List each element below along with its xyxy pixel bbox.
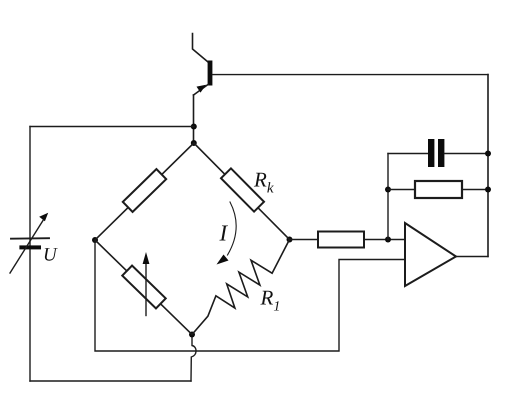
- wire input resistor to inverting input: [364, 239, 405, 241]
- svg-text:R1: R1: [260, 286, 281, 315]
- node capacitor-rail junction: [485, 151, 491, 157]
- svg-text:Rk: Rk: [253, 168, 274, 197]
- wire bridge-right node to input resistor: [290, 239, 319, 241]
- resistor bridge bottom-left arm (adjustable): [95, 240, 192, 335]
- node bridge bottom: [189, 332, 195, 338]
- wire feedback resistor left: [388, 189, 415, 191]
- wire top-left horizontal: [30, 126, 194, 128]
- wire op-amp output: [456, 256, 488, 258]
- wire bridge-left node to op-amp non-inverting input: [95, 240, 405, 351]
- resistor (feedback): [415, 181, 462, 198]
- node emitter / top-left wire junction: [191, 124, 197, 130]
- op-amp U1: [405, 223, 456, 286]
- wire emitter down to bridge top: [193, 95, 195, 143]
- node bridge right: [287, 237, 293, 243]
- svg-text:U: U: [43, 245, 58, 266]
- wire right rail: [487, 75, 489, 257]
- node bridge left: [92, 237, 98, 243]
- wire capacitor branch left: [388, 153, 428, 155]
- wire feedback vertical: [387, 154, 389, 240]
- resistor Rk (bridge top-right arm): [194, 143, 290, 240]
- wire collector stub: [193, 34, 209, 63]
- resistor bridge top-left arm: [95, 143, 194, 240]
- node bridge top: [191, 140, 197, 146]
- wire riser to bridge bottom (hops over crossing wire): [191, 335, 196, 382]
- node inverting input: [385, 237, 391, 243]
- wire base (transistor to right rail): [212, 74, 488, 76]
- resistor (op-amp input): [318, 232, 364, 248]
- transistor Q1: [194, 61, 213, 96]
- wire bottom horizontal: [30, 380, 191, 382]
- wire left rail upper: [29, 127, 31, 246]
- svg-text:I: I: [219, 221, 229, 246]
- wire feedback resistor right: [462, 189, 488, 191]
- capacitor C1: [428, 139, 444, 167]
- current arrow I: [217, 202, 237, 265]
- resistor R1 (bridge bottom-right arm, zigzag): [192, 240, 290, 335]
- source U (adjustable voltage source): [10, 213, 49, 273]
- wire left rail lower: [29, 249, 31, 381]
- wire capacitor branch right: [444, 153, 488, 155]
- node feedback branch: [385, 187, 391, 193]
- node feedback resistor-rail junction: [485, 187, 491, 193]
